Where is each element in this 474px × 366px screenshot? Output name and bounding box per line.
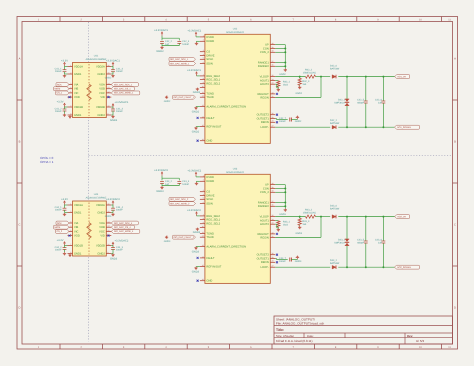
svg-text:31: 31 <box>272 235 274 237</box>
no-connect FAULT pin U43 <box>197 257 199 259</box>
svg-text:5: 5 <box>203 57 204 59</box>
svg-text:AO2_VA: AO2_VA <box>397 216 406 218</box>
svg-text:16: 16 <box>108 65 110 67</box>
svg-text:REF IN/OUT: REF IN/OUT <box>206 125 221 128</box>
svg-text:R42_3: R42_3 <box>302 80 309 83</box>
wire C41_1 to GND1 pin <box>64 72 66 75</box>
svg-text:Id: 5/3: Id: 5/3 <box>416 340 424 343</box>
isolator U44 designator <box>94 193 99 196</box>
svg-text:VIA: VIA <box>74 222 78 225</box>
svg-text:OUTSET2: OUTSET2 <box>257 253 269 256</box>
svg-text:ISO_DAC_CS_4: ISO_DAC_CS_4 <box>114 226 131 228</box>
ground DGND pin U43 <box>197 180 200 182</box>
svg-text:C41_2: C41_2 <box>55 108 62 111</box>
svg-text:11: 11 <box>202 231 204 233</box>
no-connect REGOUT 43 <box>276 233 278 235</box>
svg-text:C: C <box>454 224 456 227</box>
svg-text:REGIN: REGIN <box>260 96 268 99</box>
ground GND2 right rail U42 <box>284 69 286 70</box>
DAC U42 designator <box>233 28 238 31</box>
ground ALARM pin U42 <box>196 106 200 108</box>
svg-text:GND1: GND1 <box>74 211 81 214</box>
svg-text:ISO_DAC_SCK_2: ISO_DAC_SCK_2 <box>170 198 188 200</box>
svg-text:VDD2B: VDD2B <box>96 244 105 247</box>
wire AOUT2 to ground 42 <box>275 83 277 85</box>
ground GND3 right rail U43 <box>284 209 286 210</box>
svg-text:GND2: GND2 <box>193 91 200 94</box>
svg-text:VDD2A: VDD2A <box>96 65 105 68</box>
svg-text:TSHD: TSHD <box>206 96 213 99</box>
svg-text:GND2: GND2 <box>295 120 302 123</box>
svg-text:8: 8 <box>335 19 337 22</box>
global label SCK <box>56 221 69 225</box>
svg-text:CPHA = 1: CPHA = 1 <box>40 160 53 163</box>
svg-text:100nF: 100nF <box>116 70 123 73</box>
capacitor C43_2 <box>160 180 164 182</box>
svg-text:+3.3V: +3.3V <box>61 59 68 62</box>
global label ISO_DAC_MOSI into U43 <box>169 202 196 206</box>
wire after R <box>316 76 331 78</box>
svg-text:8: 8 <box>70 252 71 254</box>
diode D42_0 <box>332 75 336 79</box>
svg-text:6: 6 <box>250 19 252 22</box>
svg-text:ISO_DAC_MOSI_4: ISO_DAC_MOSI_4 <box>114 230 133 232</box>
wire lower output 43 <box>275 266 330 268</box>
svg-text:TSHD: TSHD <box>206 236 213 239</box>
svg-text:5: 5 <box>70 229 71 231</box>
svg-text:C41_3: C41_3 <box>116 108 123 111</box>
svg-text:9: 9 <box>108 113 109 115</box>
svg-text:16: 16 <box>202 279 204 281</box>
no-connect OUTSET2 <box>276 114 278 116</box>
DAC U42 body <box>205 34 270 143</box>
svg-text:REG_SEL0: REG_SEL0 <box>206 215 220 218</box>
svg-text:4: 4 <box>165 346 167 349</box>
svg-text:FAULT: FAULT <box>206 257 214 260</box>
wire VDD2A U44 <box>111 204 113 206</box>
svg-text:+3.3VDAC1: +3.3VDAC1 <box>187 29 201 32</box>
wire decoupling rail <box>161 176 163 181</box>
svg-text:16: 16 <box>202 139 204 141</box>
svg-text:U41: U41 <box>94 55 99 58</box>
svg-text:CON: CON <box>263 47 269 50</box>
svg-text:C42_2: C42_2 <box>165 40 172 43</box>
isolator U41 isolation barrier <box>87 64 91 116</box>
svg-text:VOC: VOC <box>99 92 105 95</box>
global label fault into U43 <box>173 235 196 239</box>
svg-text:SCK: SCK <box>57 84 62 86</box>
svg-text:35: 35 <box>272 75 274 77</box>
power +3.3VDAC1 lower right of U41 <box>112 105 114 108</box>
svg-text:SCK: SCK <box>57 222 62 224</box>
svg-text:15MEG(1%): 15MEG(1%) <box>303 212 316 215</box>
svg-text:3: 3 <box>70 83 71 85</box>
svg-text:39: 39 <box>272 47 274 49</box>
wire main output 42 <box>275 76 305 78</box>
svg-text:CS: CS <box>206 190 210 193</box>
isolator U41 designator <box>94 55 99 58</box>
ground GND3 after C43_7 <box>291 259 297 261</box>
svg-text:2: 2 <box>203 39 204 41</box>
ground GND1 pin lower U41 <box>69 115 71 116</box>
svg-text:10: 10 <box>108 105 110 107</box>
svg-text:R43_3: R43_3 <box>302 220 309 223</box>
svg-text:3: 3 <box>203 190 204 192</box>
svg-text:+3.3VDAC1: +3.3VDAC1 <box>106 60 120 63</box>
svg-text:CS_2: CS_2 <box>57 230 63 232</box>
svg-text:33: 33 <box>272 82 274 84</box>
svg-text:ISO_DAC_FAULT_2: ISO_DAC_FAULT_2 <box>174 236 195 238</box>
svg-text:Sheet: /ANALOG_OUTPUT/: Sheet: /ANALOG_OUTPUT/ <box>276 318 315 321</box>
wire RSET riser <box>275 96 321 98</box>
svg-text:VOA: VOA <box>99 222 105 225</box>
svg-text:GND3: GND3 <box>192 271 199 274</box>
ground REF pin U43 <box>196 266 200 268</box>
power +3.3V lower left of U44 <box>64 243 66 246</box>
svg-text:GND2: GND2 <box>192 131 199 134</box>
svg-text:3: 3 <box>123 346 125 349</box>
svg-text:D: D <box>454 307 456 310</box>
svg-text:VIB: VIB <box>74 226 78 229</box>
ground GND2 below C41_4 <box>112 74 114 75</box>
global label ISO_DAC_SCK right U41 <box>111 83 138 87</box>
svg-text:30: 30 <box>272 253 274 255</box>
svg-text:GND2: GND2 <box>97 252 104 255</box>
wire C41_3 to GND pin <box>112 111 114 115</box>
svg-text:VIA: VIA <box>74 83 78 86</box>
svg-text:C42_6: C42_6 <box>375 99 382 102</box>
svg-text:REG_SEL1: REG_SEL1 <box>206 78 220 81</box>
svg-text:C43_6: C43_6 <box>375 239 382 242</box>
svg-text:ISO_DAC_MOSI_1: ISO_DAC_MOSI_1 <box>170 63 189 65</box>
svg-text:GND1: GND1 <box>74 73 81 76</box>
svg-text:FAULT: FAULT <box>206 117 214 120</box>
svg-text:Date:: Date: <box>307 335 314 338</box>
ground below C44_2 <box>64 249 66 252</box>
svg-text:OUTSET1: OUTSET1 <box>257 257 269 260</box>
svg-text:D42_0: D42_0 <box>330 65 337 68</box>
svg-text:100nF: 100nF <box>279 260 286 263</box>
capacitor C43_5 <box>365 217 367 241</box>
svg-text:A: A <box>454 57 456 60</box>
svg-text:1k0: 1k0 <box>302 83 306 86</box>
svg-text:+3.3VDAC2: +3.3VDAC2 <box>187 209 201 212</box>
svg-text:13: 13 <box>108 225 110 227</box>
svg-text:GND3: GND3 <box>295 260 302 263</box>
svg-text:14: 14 <box>202 256 204 258</box>
wire AOUT2 to ground 43 <box>275 223 277 225</box>
svg-text:LOOP-: LOOP- <box>261 126 269 129</box>
svg-text:ISO_DAC_MOSI_2: ISO_DAC_MOSI_2 <box>170 203 189 205</box>
svg-text:+3.3VDAC2: +3.3VDAC2 <box>106 198 120 201</box>
diode D43_2 <box>332 265 336 269</box>
power +3.3VDAC2 DVDD pin U43 <box>195 173 197 176</box>
svg-text:UP: UP <box>265 183 269 186</box>
DAC U42 pin names <box>206 36 269 143</box>
svg-text:100nF: 100nF <box>116 209 123 212</box>
svg-text:GND2: GND2 <box>164 100 171 103</box>
svg-text:ISO_DAC_SCK_1: ISO_DAC_SCK_1 <box>170 58 188 60</box>
svg-text:7: 7 <box>70 105 71 107</box>
svg-text:GND2: GND2 <box>97 114 104 117</box>
svg-text:16: 16 <box>108 203 110 205</box>
svg-text:VIC: VIC <box>74 92 78 95</box>
svg-text:GND3: GND3 <box>192 250 199 253</box>
svg-text:13: 13 <box>202 105 204 107</box>
svg-text:GND3: GND3 <box>279 213 286 216</box>
svg-text:CS: CS <box>206 50 210 53</box>
svg-text:6: 6 <box>250 346 252 349</box>
capacitor C41_2 <box>63 108 67 110</box>
isolator U41 body <box>73 63 107 118</box>
capacitor C43_6 <box>382 217 384 241</box>
svg-text:37: 37 <box>272 61 274 63</box>
ground REF pin U42 <box>196 126 200 128</box>
svg-text:36: 36 <box>272 204 274 206</box>
svg-text:5: 5 <box>70 91 71 93</box>
isolator U44 pin names <box>74 204 105 255</box>
svg-text:15: 15 <box>108 72 110 74</box>
svg-text:8: 8 <box>203 78 204 80</box>
wires CLR pins to ground rail <box>275 188 285 190</box>
capacitor C41_4 <box>111 69 115 71</box>
svg-text:GND2: GND2 <box>279 73 286 76</box>
svg-text:C44_1: C44_1 <box>55 206 62 209</box>
svg-text:ALARM_CURRENT_DIRECTION: ALARM_CURRENT_DIRECTION <box>206 245 246 248</box>
wires CLR pins to ground rail <box>275 48 285 50</box>
capacitor C44_1 <box>63 207 67 209</box>
svg-text:VIC: VIC <box>74 230 78 233</box>
capacitor C41_3 <box>111 108 115 110</box>
wire main output 43 <box>275 216 305 218</box>
svg-text:13: 13 <box>202 245 204 247</box>
svg-text:34: 34 <box>272 78 274 80</box>
svg-text:12: 12 <box>108 91 110 93</box>
svg-text:8: 8 <box>335 346 337 349</box>
resistor R42_3 <box>299 76 301 78</box>
svg-text:AOUT2: AOUT2 <box>260 83 269 86</box>
svg-text:GND1: GND1 <box>74 252 81 255</box>
svg-text:14: 14 <box>108 83 110 85</box>
svg-text:TGND: TGND <box>206 232 214 235</box>
global label ISO_DAC_MOSI right U44 <box>111 230 140 234</box>
isolator U44 body <box>73 201 107 256</box>
svg-text:100nF: 100nF <box>182 183 189 186</box>
global label AO1_SIGNAL <box>395 125 420 129</box>
wire C41_4 to GND2 pin <box>112 72 114 75</box>
svg-text:GND2: GND2 <box>156 50 163 53</box>
capacitor C43_4 <box>177 180 181 182</box>
no-connect VOD U41 <box>69 96 71 98</box>
isolator U44 isolation barrier <box>87 203 91 255</box>
capacitor C42_7 REF <box>275 118 276 120</box>
note CPOL/CPHA <box>40 157 53 164</box>
no-connect FAULT pin U42 <box>197 117 199 119</box>
diode D42_2 <box>332 125 336 129</box>
svg-text:GND2: GND2 <box>110 119 117 122</box>
svg-text:MOSI: MOSI <box>55 88 61 90</box>
svg-text:VOD: VOD <box>74 96 80 99</box>
ground below R42_3 <box>299 84 301 87</box>
svg-text:29: 29 <box>272 117 274 119</box>
capacitor C44_3 <box>111 247 115 249</box>
svg-text:6: 6 <box>70 95 71 97</box>
svg-text:GND3: GND3 <box>110 257 117 260</box>
power +3.3VDAC1 decoupling rail U42 <box>161 33 163 36</box>
svg-text:9: 9 <box>377 19 379 22</box>
svg-text:10: 10 <box>202 86 204 88</box>
ground below C41_2 <box>64 111 66 114</box>
global label CS_2 <box>56 230 70 234</box>
ground left of fault label U42 <box>165 96 168 99</box>
svg-text:+3.3VDAC1: +3.3VDAC1 <box>187 69 201 72</box>
svg-text:1k0: 1k0 <box>302 223 306 226</box>
svg-text:14: 14 <box>202 116 204 118</box>
no-connect REFIN <box>276 121 278 123</box>
DAC U43 value AD5412/AD5422 <box>226 171 244 174</box>
wire VDD2A U41 <box>111 66 113 68</box>
svg-text:U44: U44 <box>94 193 99 196</box>
svg-text:ADuM141E1BRWZ: ADuM141E1BRWZ <box>86 58 107 61</box>
capacitor C44_2 <box>63 247 67 249</box>
svg-text:5: 5 <box>208 346 210 349</box>
svg-text:GND1: GND1 <box>74 114 81 117</box>
svg-text:2: 2 <box>70 211 71 213</box>
svg-text:U43: U43 <box>233 168 238 171</box>
global label SCK <box>56 83 69 87</box>
svg-text:9: 9 <box>377 346 379 349</box>
svg-text:VLOOP: VLOOP <box>260 75 269 78</box>
svg-text:+3.3V: +3.3V <box>57 100 64 103</box>
capacitor C42_4 <box>177 40 181 42</box>
svg-text:3: 3 <box>123 19 125 22</box>
svg-text:C41_4: C41_4 <box>116 68 123 71</box>
svg-text:6: 6 <box>203 62 204 64</box>
svg-text:SDIN: SDIN <box>206 62 212 65</box>
wire C44_4 to GND2 pin <box>112 210 114 213</box>
ground GND2 after C42_7 <box>291 119 297 121</box>
svg-text:40: 40 <box>272 43 274 45</box>
svg-text:CON_2: CON_2 <box>260 191 269 194</box>
svg-text:1: 1 <box>203 175 204 177</box>
global label CS_1 <box>56 91 70 95</box>
svg-text:4: 4 <box>70 225 71 227</box>
svg-text:GND3: GND3 <box>156 190 163 193</box>
isolator U41 pins <box>68 65 112 115</box>
junction RSET riser <box>320 216 322 218</box>
ground below R43_3 <box>299 224 301 227</box>
svg-text:15: 15 <box>108 211 110 213</box>
svg-text:GND2: GND2 <box>97 211 104 214</box>
svg-text:VDD2A: VDD2A <box>96 204 105 207</box>
svg-text:GND3: GND3 <box>193 231 200 234</box>
svg-text:R42_1: R42_1 <box>283 80 290 83</box>
svg-text:Title:: Title: <box>276 328 284 332</box>
svg-text:14: 14 <box>108 221 110 223</box>
global label ISO_DAC_SCK right U44 <box>111 221 138 225</box>
global label AO2_VA <box>395 215 410 219</box>
isolator U44 value ADuM141E <box>86 197 107 200</box>
svg-text:10: 10 <box>108 244 110 246</box>
DAC U43 pin names <box>206 176 269 283</box>
svg-text:DGND: DGND <box>206 40 214 43</box>
ground GND3 decoupling U43 <box>161 186 163 187</box>
svg-text:Rev:: Rev: <box>407 335 413 338</box>
svg-text:REF IN/OUT: REF IN/OUT <box>206 265 221 268</box>
svg-text:27: 27 <box>272 265 274 267</box>
svg-text:REGIN: REGIN <box>260 236 268 239</box>
svg-text:OUTSET1: OUTSET1 <box>257 117 269 120</box>
svg-text:GND2: GND2 <box>296 92 303 95</box>
capacitor C42_5 <box>365 77 367 101</box>
svg-text:12: 12 <box>202 95 204 97</box>
svg-text:6: 6 <box>70 234 71 236</box>
svg-text:7: 7 <box>203 214 204 216</box>
svg-text:7: 7 <box>293 346 295 349</box>
isolator U44 pins <box>68 203 112 253</box>
diode D43_0 <box>332 215 336 219</box>
resistor R43_3 <box>299 216 301 218</box>
svg-text:TGND: TGND <box>206 92 214 95</box>
svg-text:VID: VID <box>100 96 104 99</box>
svg-text:ISO_DAC_SCK_4: ISO_DAC_SCK_4 <box>114 222 132 224</box>
svg-text:ISO_DAC_MOSI_1: ISO_DAC_MOSI_1 <box>114 92 133 94</box>
svg-text:100nF: 100nF <box>116 110 123 113</box>
svg-text:GND2: GND2 <box>97 73 104 76</box>
svg-text:ADuM141E1BRWZ: ADuM141E1BRWZ <box>86 197 107 200</box>
svg-text:+3.3VDAC2: +3.3VDAC2 <box>154 169 168 172</box>
no-connect VID U41 <box>108 96 110 98</box>
svg-text:15: 15 <box>202 265 204 267</box>
svg-text:VOC: VOC <box>99 230 105 233</box>
svg-text:VDD2B: VDD2B <box>96 106 105 109</box>
capacitor C44_4 <box>111 207 115 209</box>
svg-text:DRIVE: DRIVE <box>206 194 214 197</box>
svg-text:BAT54W: BAT54W <box>330 262 339 265</box>
svg-text:GND: GND <box>206 139 212 142</box>
ground GND1 pin lower U44 <box>69 254 71 255</box>
global label ISO_DAC_SCK into U42 <box>169 57 196 61</box>
svg-text:15: 15 <box>202 125 204 127</box>
wire SDO pin to ground rail U42 <box>275 44 285 46</box>
svg-text:REFIN: REFIN <box>261 261 269 264</box>
svg-text:32: 32 <box>272 92 274 94</box>
junction RSET riser <box>320 76 322 78</box>
power +3.3VDAC2 upper right of U44 <box>112 202 114 205</box>
power +3.3V upper left of U44 <box>64 202 66 205</box>
wire decoupling rail <box>161 36 163 41</box>
power +3.3VDAC1 REG_SEL0 pin U42 <box>196 73 198 76</box>
svg-text:BAT54W: BAT54W <box>330 68 339 71</box>
no-connect GND pin U43 <box>197 280 199 282</box>
ground ALARM pin U43 <box>196 246 200 248</box>
svg-text:7: 7 <box>70 244 71 246</box>
svg-text:+3.3VDAC1: +3.3VDAC1 <box>154 29 168 32</box>
svg-text:REG_SEL1: REG_SEL1 <box>206 218 220 221</box>
svg-text:AOUT2: AOUT2 <box>260 223 269 226</box>
svg-text:32: 32 <box>272 232 274 234</box>
svg-text:100nF: 100nF <box>55 110 62 113</box>
svg-text:C43_7: C43_7 <box>279 257 286 260</box>
svg-text:15MEG(1%): 15MEG(1%) <box>303 72 316 75</box>
svg-text:MOSI: MOSI <box>55 226 61 228</box>
svg-text:8: 8 <box>203 218 204 220</box>
svg-text:7: 7 <box>293 19 295 22</box>
svg-text:40: 40 <box>272 183 274 185</box>
ground left of fault label U43 <box>165 236 168 239</box>
svg-text:C41_1: C41_1 <box>55 68 62 71</box>
svg-text:12: 12 <box>202 235 204 237</box>
